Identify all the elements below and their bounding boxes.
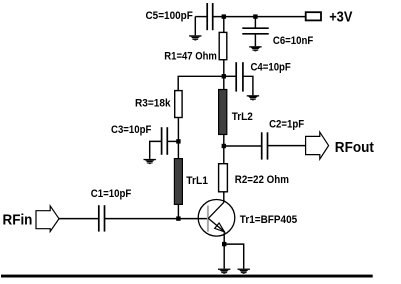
svg-text:Tr1=BFP405: Tr1=BFP405 xyxy=(240,214,297,226)
svg-text:C6=10nF: C6=10nF xyxy=(273,35,314,47)
svg-text:+3V: +3V xyxy=(329,9,352,25)
svg-text:C1=10pF: C1=10pF xyxy=(91,188,132,200)
svg-text:R2=22 Ohm: R2=22 Ohm xyxy=(235,174,289,186)
svg-text:C4=10pF: C4=10pF xyxy=(251,62,292,74)
svg-text:C5=100pF: C5=100pF xyxy=(146,10,194,22)
svg-text:R1=47 Ohm: R1=47 Ohm xyxy=(164,50,217,62)
svg-text:RFout: RFout xyxy=(335,140,374,156)
svg-text:C2=1pF: C2=1pF xyxy=(269,119,304,131)
svg-text:TrL2: TrL2 xyxy=(232,111,253,123)
svg-text:RFin: RFin xyxy=(3,213,33,229)
svg-text:TrL1: TrL1 xyxy=(186,175,208,187)
svg-text:C3=10pF: C3=10pF xyxy=(111,124,152,136)
svg-text:R3=18k: R3=18k xyxy=(135,98,171,110)
